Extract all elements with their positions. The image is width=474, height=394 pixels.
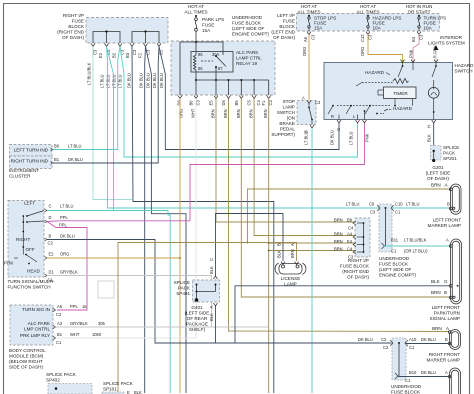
wire label E BLK — [127, 390, 142, 394]
wire wht B6 to BCM — [57, 99, 196, 339]
node switch contact 8 — [28, 263, 30, 265]
svg-text:B: B — [444, 290, 447, 295]
svg-text:A: A — [446, 238, 449, 243]
label hot at all times (park lps) — [184, 4, 207, 15]
svg-text:BRN: BRN — [223, 109, 228, 118]
splice pack SP402 — [46, 372, 77, 383]
svg-text:LAMP: LAMP — [282, 105, 295, 110]
svg-text:BRN: BRN — [249, 109, 254, 118]
multifunction pin arrows — [45, 209, 48, 277]
svg-text:DK BLU: DK BLU — [60, 234, 75, 239]
wire dk blu A10 to L3 — [405, 343, 451, 345]
node switch contact 2 — [26, 215, 28, 217]
svg-text:1060: 1060 — [92, 332, 102, 337]
box A wire colour labels (vertical) — [87, 62, 165, 88]
label underhood fuse block — [232, 15, 269, 37]
svg-text:BRN: BRN — [334, 247, 343, 252]
svg-text:(LEFT SIDE OF: (LEFT SIDE OF — [232, 26, 265, 31]
svg-text:LICENSE: LICENSE — [281, 276, 301, 281]
svg-text:A6: A6 — [303, 36, 308, 42]
node lamp ground — [457, 285, 459, 287]
svg-text:CLUSTER: CLUSTER — [9, 174, 31, 179]
svg-text:BRAKE: BRAKE — [279, 121, 295, 126]
underhood fuse block UB2 connector — [392, 338, 406, 380]
svg-text:LMP CNTRL: LMP CNTRL — [24, 327, 50, 332]
node fuse feed junction — [195, 41, 197, 43]
label hazard switch — [455, 63, 474, 74]
node switch contact 5 — [22, 231, 24, 233]
svg-text:C3: C3 — [348, 255, 354, 260]
node relay 87 — [215, 66, 217, 68]
svg-text:D1: D1 — [49, 270, 55, 275]
svg-text:HOT AT: HOT AT — [301, 4, 317, 9]
hazard bottom pin arrows — [337, 120, 436, 123]
svg-text:HOT AT: HOT AT — [360, 4, 376, 9]
svg-text:SUPPORT): SUPPORT) — [271, 132, 295, 137]
svg-text:85: 85 — [198, 52, 203, 57]
svg-text:PARK/TURN: PARK/TURN — [434, 311, 460, 316]
wire org D6 down — [179, 99, 181, 394]
svg-text:BLK: BLK — [209, 313, 214, 321]
box B wire colour labels — [179, 108, 269, 118]
wire dk blu pin B long to right frame — [47, 240, 392, 344]
stop lamp switch box — [297, 101, 316, 125]
svg-text:DK BLU: DK BLU — [127, 73, 132, 88]
wire lt blu pin C long — [47, 211, 170, 394]
node hazard lps feed — [367, 15, 369, 17]
svg-text:C2: C2 — [56, 312, 62, 317]
node hazard feed e — [402, 65, 404, 67]
svg-text:C: C — [209, 258, 214, 261]
node hazard contact c — [369, 105, 371, 107]
svg-text:STOP: STOP — [283, 99, 295, 104]
wire blk G left front park lamp to ground bus — [235, 286, 450, 343]
box A bus 2 — [132, 32, 159, 44]
svg-text:OF DASH): OF DASH) — [273, 35, 295, 40]
svg-text:UNDERHOOD: UNDERHOOD — [232, 15, 263, 20]
svg-text:H: H — [427, 125, 432, 128]
node hazard contact d — [394, 105, 396, 107]
svg-text:E5: E5 — [209, 100, 214, 106]
wire brn D5 to A4 — [229, 99, 450, 332]
B9 pin arrows — [353, 221, 356, 254]
svg-text:LT BLU: LT BLU — [106, 74, 111, 88]
node box B bus junction 3 — [228, 79, 230, 81]
label left I/P fuse block — [271, 13, 296, 40]
svg-text:RIGHT TURN IND: RIGHT TURN IND — [11, 159, 49, 164]
wire lt blu pin3 to left turn ind — [53, 47, 121, 150]
svg-text:15A: 15A — [314, 26, 323, 31]
wire pnk hazard to ppl net — [190, 123, 365, 221]
svg-text:TURN SIG IN: TURN SIG IN — [22, 307, 50, 312]
svg-text:SPLICE: SPLICE — [443, 145, 459, 150]
svg-text:G: G — [336, 128, 341, 131]
node hazard contact h — [364, 110, 366, 112]
svg-text:D6: D6 — [177, 100, 182, 106]
svg-text:PNK: PNK — [365, 133, 370, 142]
node SP201 splice — [433, 150, 435, 152]
svg-text:BLK: BLK — [134, 390, 142, 394]
box A bus 1 — [93, 32, 120, 44]
svg-text:SP401: SP401 — [176, 291, 190, 296]
svg-text:C1: C1 — [409, 345, 415, 350]
svg-text:LT BLU: LT BLU — [68, 144, 82, 149]
blank label box — [98, 281, 114, 298]
svg-text:C2: C2 — [383, 345, 389, 350]
svg-text:10A: 10A — [373, 26, 382, 31]
wire blk license lamp B to SP401 — [216, 214, 284, 277]
wire labels DK BLU C2 A10 B10 — [358, 337, 448, 383]
hazard switch box — [324, 63, 453, 120]
svg-text:A: A — [209, 306, 214, 309]
hazard lamp circle — [428, 87, 439, 98]
node C4 — [363, 251, 365, 253]
svg-text:SIDE OF DASH): SIDE OF DASH) — [9, 365, 43, 370]
svg-text:E: E — [127, 390, 130, 394]
svg-text:C1: C1 — [391, 249, 397, 254]
fuse HAZARD LPS 10A — [367, 15, 369, 31]
node A4 — [363, 236, 365, 238]
BCM pin arrows — [53, 308, 56, 340]
node relay 30A — [215, 55, 217, 57]
arrow to interior lights — [434, 45, 439, 50]
node stop switch contact 2 — [311, 119, 313, 121]
svg-text:B1: B1 — [57, 332, 63, 337]
fuse STOP LPS 15A — [308, 15, 310, 31]
svg-text:GRY/BLK: GRY/BLK — [60, 270, 78, 275]
svg-text:BRN: BRN — [334, 232, 343, 237]
svg-text:C1: C1 — [56, 340, 62, 345]
svg-text:LT BLU: LT BLU — [346, 202, 360, 207]
svg-text:OF DASH): OF DASH) — [347, 275, 369, 280]
turn signal / multifunction switch box — [8, 201, 44, 278]
svg-text:BLOCK: BLOCK — [68, 24, 85, 29]
svg-text:B4: B4 — [411, 36, 416, 42]
hazard internal wiring — [328, 63, 436, 120]
hazard lamp filament — [431, 87, 437, 95]
svg-text:GRY/BLK: GRY/BLK — [70, 321, 88, 326]
node park lps feed — [195, 15, 197, 17]
relay coil — [194, 52, 227, 81]
svg-text:ALL TIMES: ALL TIMES — [184, 10, 207, 15]
hazard pointer line 2 — [384, 109, 388, 111]
wire dk blu pin6b to hazard R — [159, 47, 339, 150]
svg-text:LAMP CTRL: LAMP CTRL — [236, 56, 262, 61]
node C9/C10 junction — [385, 207, 387, 209]
svg-text:C12: C12 — [360, 34, 365, 42]
svg-text:FUSE BLOCK: FUSE BLOCK — [379, 262, 409, 267]
svg-text:HEAD: HEAD — [27, 269, 40, 274]
svg-text:G201: G201 — [432, 165, 444, 170]
svg-text:LT BLU: LT BLU — [349, 131, 354, 145]
label hot at all times (stop lps) — [297, 4, 432, 15]
svg-text:B: B — [304, 130, 309, 133]
svg-text:B9: B9 — [347, 218, 353, 223]
svg-text:C10: C10 — [395, 202, 403, 207]
svg-text:BRN: BRN — [211, 109, 216, 118]
multifunction pin labels — [48, 204, 78, 283]
node box B bus junction 4 — [240, 79, 242, 81]
label license lamp — [281, 276, 301, 287]
wire ppl pin D fork lower to BCM — [47, 222, 87, 311]
interior lights system label — [428, 35, 465, 46]
node hazard feed f — [435, 65, 437, 67]
splice pack SP401 — [193, 280, 220, 302]
svg-text:BLK: BLK — [209, 266, 214, 274]
svg-text:B3: B3 — [125, 52, 130, 58]
svg-text:PPL: PPL — [59, 223, 67, 228]
svg-text:LEFT: LEFT — [24, 201, 35, 206]
wire dk blu B10 to L4 — [398, 376, 451, 378]
node hazard lamp return — [433, 111, 435, 113]
node switch contact 4 — [26, 221, 28, 223]
svg-text:86: 86 — [198, 66, 203, 71]
svg-text:SHELF): SHELF) — [189, 327, 206, 332]
svg-text:DK BLU: DK BLU — [421, 337, 436, 342]
svg-text:BLK: BLK — [277, 250, 282, 258]
svg-text:C2: C2 — [48, 241, 54, 246]
svg-text:B: B — [445, 337, 448, 342]
svg-text:87: 87 — [218, 66, 223, 71]
instrument cluster box — [10, 145, 53, 157]
hazard bottom wire labels — [330, 125, 432, 145]
svg-text:PACK: PACK — [443, 151, 456, 156]
svg-text:MARKER LAMP: MARKER LAMP — [427, 358, 460, 363]
svg-text:UNDERHOOD: UNDERHOOD — [391, 384, 422, 389]
node turn lps feed — [418, 15, 420, 17]
svg-text:SPLICE PACK: SPLICE PACK — [46, 372, 77, 377]
relay pin numbers 85 30A 86 87 — [198, 52, 223, 71]
svg-text:RELAY 19: RELAY 19 — [236, 61, 257, 66]
box A pin labels — [93, 49, 164, 58]
svg-text:PARK LPS: PARK LPS — [202, 17, 224, 22]
label splice pack SP201 — [443, 145, 459, 161]
svg-text:C9: C9 — [369, 202, 375, 207]
svg-text:(LEFT END: (LEFT END — [271, 30, 295, 35]
svg-text:A10: A10 — [409, 337, 417, 342]
svg-text:ENGINE COMPT): ENGINE COMPT) — [232, 32, 269, 37]
wire dk blu pin4 down long — [132, 47, 274, 394]
pin labels box C A6 C12 B4 + wire colours — [302, 34, 438, 58]
stop lamp switch pins — [307, 101, 314, 129]
svg-text:ORG: ORG — [360, 47, 365, 56]
svg-text:PRK: PRK — [4, 261, 14, 266]
svg-text:BLK: BLK — [427, 134, 432, 142]
node stop switch contact 1 — [308, 107, 310, 109]
node SP402 splice — [55, 387, 58, 390]
svg-text:C3: C3 — [132, 49, 137, 55]
ground G201 dot — [432, 159, 435, 162]
connector C2/A10/B10 arrows — [390, 340, 408, 379]
svg-text:(LEFT SIDE: (LEFT SIDE — [426, 171, 451, 176]
svg-text:LT BLU: LT BLU — [60, 204, 74, 209]
svg-text:BRN: BRN — [334, 218, 343, 223]
svg-text:ALC PARK: ALC PARK — [28, 321, 51, 326]
svg-text:C1: C1 — [48, 278, 54, 283]
node hazard contact b — [350, 105, 352, 107]
node bus2 junction — [144, 30, 146, 32]
svg-text:G: G — [444, 279, 448, 284]
svg-text:FUSE: FUSE — [202, 23, 214, 28]
hazard switch top pin arrows — [401, 60, 439, 63]
pin labels BCM A6 A3 B1 — [56, 304, 106, 345]
svg-text:(RIGHT END: (RIGHT END — [57, 30, 84, 35]
svg-text:BRN: BRN — [432, 326, 442, 331]
svg-text:DK BLU: DK BLU — [68, 157, 83, 162]
svg-text:SP402: SP402 — [46, 378, 60, 383]
label stop lamp switch — [271, 99, 295, 137]
SP401 top pin C — [214, 276, 218, 279]
svg-text:G401: G401 — [191, 305, 203, 310]
svg-text:E2: E2 — [98, 52, 103, 58]
svg-text:FUSE BLOCK: FUSE BLOCK — [391, 390, 421, 394]
svg-text:HAZARD: HAZARD — [393, 106, 413, 111]
svg-text:LT BLU: LT BLU — [100, 74, 105, 88]
wire labels BRN B9 A4 E4 C4 — [334, 218, 354, 260]
svg-text:BLK: BLK — [431, 279, 441, 284]
B9 bus stubs — [357, 223, 364, 252]
label turn lps fuse 10A — [424, 16, 447, 31]
svg-text:FUSE BLOCK: FUSE BLOCK — [340, 264, 370, 269]
wire lt blu/blk B11 to L2 — [385, 245, 451, 247]
svg-text:10A: 10A — [424, 26, 433, 31]
svg-text:B5: B5 — [234, 100, 239, 106]
svg-text:DK BLU: DK BLU — [159, 73, 164, 88]
svg-text:C2: C2 — [381, 337, 387, 342]
svg-text:DK BLU: DK BLU — [330, 130, 335, 145]
node brn C4 junction — [268, 250, 270, 252]
svg-text:B11: B11 — [391, 238, 399, 243]
svg-text:PPL: PPL — [70, 304, 78, 309]
svg-text:TIMER: TIMER — [393, 91, 408, 96]
left I/P fuse block box C — [297, 14, 440, 32]
node switch contact 6 — [22, 246, 24, 248]
node brn junction license feed — [246, 242, 248, 244]
lamp L4 right front park/turn — [448, 368, 460, 394]
svg-text:D: D — [49, 215, 52, 220]
node C2/A10 junction — [398, 342, 400, 344]
svg-text:B10: B10 — [409, 370, 417, 375]
wire dk blu pin5 fan a — [144, 47, 147, 394]
svg-text:BRN: BRN — [334, 239, 343, 244]
svg-text:15A: 15A — [202, 28, 211, 33]
svg-text:DK BLU: DK BLU — [146, 73, 151, 88]
svg-text:F1: F1 — [261, 100, 266, 106]
svg-text:B2: B2 — [112, 52, 117, 58]
svg-text:HOT IN RUN: HOT IN RUN — [406, 4, 433, 9]
svg-text:MODULE (BCM): MODULE (BCM) — [9, 354, 44, 359]
ground G401 text — [185, 305, 210, 332]
svg-text:(LEFT SIDE: (LEFT SIDE — [185, 311, 210, 316]
svg-text:SWITCH: SWITCH — [455, 69, 473, 74]
relay U19 box — [191, 52, 233, 73]
label underhood fuse block UB2 — [391, 384, 422, 394]
svg-text:FUSE: FUSE — [72, 19, 84, 24]
wire blk SP401 A down to ground bus — [215, 306, 217, 343]
svg-text:LT BLU: LT BLU — [118, 74, 123, 88]
fuse TURN LPS 10A — [418, 15, 420, 31]
svg-text:SP201: SP201 — [443, 156, 457, 161]
wire org hazard lps to hazard switch — [368, 35, 403, 63]
svg-text:HAZARD: HAZARD — [455, 63, 474, 68]
svg-text:A: A — [302, 96, 305, 101]
svg-text:LEFT FRONT: LEFT FRONT — [433, 218, 461, 223]
svg-text:DK BLU: DK BLU — [358, 337, 373, 342]
svg-text:B: B — [49, 234, 52, 239]
label splice pack SP401 — [174, 280, 191, 296]
svg-text:E2: E2 — [49, 252, 55, 257]
label right I/P fuse block — [340, 258, 370, 280]
svg-text:C: C — [49, 204, 52, 209]
label right front marker lamp — [427, 326, 461, 363]
svg-text:B0: B0 — [54, 144, 60, 149]
node box B bus junction 5 — [253, 79, 255, 81]
labels multifunction switch — [4, 201, 55, 290]
svg-text:ORG: ORG — [179, 109, 184, 118]
wire brn B5 to left front park lamp B — [241, 99, 450, 298]
svg-text:BODY CONTROL: BODY CONTROL — [9, 348, 46, 353]
wire labels license lamp B BLK / A BRN — [277, 243, 296, 258]
SP401 internal bus — [197, 284, 216, 299]
node SP401 c — [196, 291, 198, 293]
B9 bus — [363, 223, 365, 252]
wire UB2 internal — [398, 343, 400, 376]
svg-text:FUNCTION SWITCH: FUNCTION SWITCH — [8, 285, 51, 290]
license lamp — [275, 263, 306, 275]
hazard bottom pin labels — [331, 114, 356, 119]
svg-text:C5: C5 — [247, 100, 252, 106]
svg-text:OF DASH): OF DASH) — [62, 35, 84, 40]
svg-text:ORG: ORG — [302, 47, 307, 56]
wire org pin E2 to org vertical — [47, 257, 180, 259]
svg-text:305: 305 — [98, 321, 106, 326]
svg-text:UNDERHOOD: UNDERHOOD — [379, 256, 410, 261]
svg-text:A: A — [445, 370, 448, 375]
label stop lps fuse 15A — [314, 16, 336, 31]
svg-text:LIGHTS SYSTEM: LIGHTS SYSTEM — [428, 41, 465, 46]
svg-text:PACK: PACK — [178, 286, 191, 291]
wire brn feeder to left front marker lamp A — [247, 189, 450, 243]
node E4 — [363, 244, 365, 246]
wire lt blu pin2b fan — [107, 47, 114, 211]
svg-text:SWITCH: SWITCH — [277, 110, 295, 115]
svg-text:ENGINE COMPT): ENGINE COMPT) — [379, 273, 416, 278]
resistor — [393, 79, 409, 84]
label alc park lamp ctrl relay 19 — [236, 50, 262, 66]
wire lt blu stop lamp down — [311, 128, 313, 393]
svg-text:BLOCK: BLOCK — [279, 24, 296, 29]
wire brn license lamp A — [118, 243, 297, 394]
svg-text:ALC PARK: ALC PARK — [236, 50, 259, 55]
svg-text:(ON: (ON — [287, 116, 295, 121]
right I/P fuse block (B9 bus) box — [355, 218, 370, 257]
hazard pointer line — [386, 73, 390, 76]
svg-text:ORG: ORG — [60, 252, 69, 257]
node hazard contact g — [376, 113, 378, 115]
node org junction — [179, 257, 181, 259]
svg-text:B: B — [277, 243, 282, 246]
svg-text:C3: C3 — [315, 100, 321, 105]
labels instrument cluster — [9, 148, 49, 179]
fuse PARK LPS 15A — [195, 15, 198, 41]
svg-text:OF REAR: OF REAR — [187, 316, 208, 321]
SP401 bottom pin A — [214, 303, 218, 306]
wire lt blu/blk pin1 down — [93, 47, 132, 200]
svg-text:C3: C3 — [370, 210, 376, 215]
svg-text:(LEFT SIDE OF: (LEFT SIDE OF — [379, 267, 412, 272]
svg-text:B6: B6 — [189, 100, 194, 106]
svg-text:WHT: WHT — [191, 108, 196, 118]
